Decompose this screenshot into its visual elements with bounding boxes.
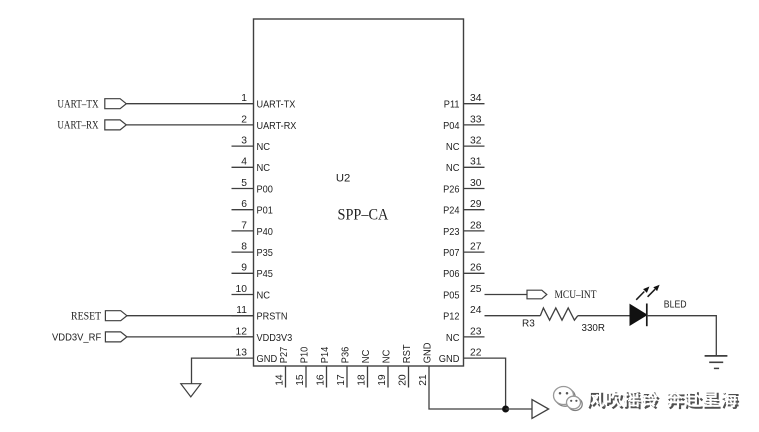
wire pin 24 P12 to R3 [485,315,541,317]
pin 24 P12 (right) [443,305,482,323]
port VDD3V_RF [52,332,127,344]
svg-text:7: 7 [241,220,247,231]
svg-text:RESET: RESET [71,310,101,322]
svg-text:12: 12 [236,326,248,337]
pin 34 P11 (right) [444,93,485,111]
svg-text:32: 32 [470,136,482,147]
svg-text:15: 15 [295,374,306,386]
svg-text:P40: P40 [257,226,274,238]
earth ground symbol (right) [705,356,728,369]
svg-text:UART–RX: UART–RX [57,120,99,132]
svg-text:3: 3 [241,136,247,147]
svg-text:P04: P04 [443,120,460,132]
svg-text:21: 21 [418,374,429,386]
svg-text:R3: R3 [522,318,535,330]
svg-text:20: 20 [398,374,409,386]
pin 9 P45 (left) [232,263,274,281]
svg-text:GND: GND [439,353,460,365]
svg-text:NC: NC [257,289,271,301]
svg-text:P12: P12 [443,311,460,323]
svg-text:U2: U2 [336,173,350,185]
svg-text:P24: P24 [443,205,460,217]
svg-text:17: 17 [336,374,347,386]
svg-text:NC: NC [446,141,460,153]
pin 5 P00 (left) [232,178,274,196]
wire VDD3V_RF to pin 12 [127,336,254,338]
svg-text:BLED: BLED [664,299,687,310]
svg-text:P26: P26 [443,183,460,195]
svg-text:14: 14 [275,374,286,386]
svg-text:4: 4 [241,157,247,168]
svg-text:26: 26 [470,263,482,274]
wire R3 to LED anode [578,315,630,317]
pin 26 P06 (right) [443,263,484,281]
svg-text:P45: P45 [257,268,274,280]
svg-text:10: 10 [236,284,248,295]
svg-text:24: 24 [470,305,482,316]
svg-text:5: 5 [241,178,247,189]
svg-text:23: 23 [470,326,482,337]
svg-text:P01: P01 [257,205,274,217]
pin 29 P24 (right) [443,199,484,217]
svg-text:VDD3V3: VDD3V3 [257,332,293,344]
svg-text:P00: P00 [257,183,274,195]
svg-text:UART-RX: UART-RX [257,120,297,132]
svg-text:31: 31 [470,157,482,168]
svg-text:2: 2 [241,114,247,125]
pin 4 NC (left) [232,157,271,175]
wire pin 21 GND to junction [429,366,506,409]
pin 12 VDD3V3 (left) [232,326,293,344]
svg-text:33: 33 [470,114,482,125]
svg-text:MCU–INT: MCU–INT [555,289,597,301]
IC U2 body [254,19,464,366]
svg-text:UART-TX: UART-TX [257,99,296,111]
svg-text:P10: P10 [298,347,310,364]
svg-text:VDD3V_RF: VDD3V_RF [52,332,101,344]
pin 15 P10 (bottom) [295,347,310,388]
svg-text:NC: NC [257,141,271,153]
pin 23 NC (right) [446,326,485,344]
svg-text:RST: RST [401,344,413,363]
svg-text:NC: NC [446,162,460,174]
pin 22 GND (right) [439,348,482,366]
svg-text:P05: P05 [443,289,460,301]
pin 19 NC (bottom) [377,349,392,387]
ground symbol (left, open triangle) [181,384,201,397]
svg-text:PRSTN: PRSTN [257,311,288,323]
pin 32 NC (right) [446,136,485,154]
svg-text:25: 25 [470,284,482,295]
svg-text:NC: NC [257,162,271,174]
pin 16 P14 (bottom) [316,347,331,388]
pin 27 P07 (right) [443,242,484,260]
pin 10 NC (left) [232,284,271,302]
svg-text:19: 19 [377,374,388,386]
svg-text:28: 28 [470,220,482,231]
svg-text:P23: P23 [443,226,460,238]
port MCU-INT [527,289,597,301]
pin 6 P01 (left) [232,199,274,217]
svg-text:13: 13 [236,348,248,359]
svg-text:P11: P11 [444,99,460,111]
svg-text:P35: P35 [257,247,274,259]
pin 11 PRSTN (left) [232,305,288,323]
svg-text:NC: NC [360,349,372,363]
LED BLED (diode with light arrows) [630,285,660,327]
svg-text:29: 29 [470,199,482,210]
wire junction to off-page connector [506,408,532,410]
pin 17 P36 (bottom) [336,347,351,388]
resistor R3 330R [540,308,578,320]
wire RESET to pin 11 [127,315,254,317]
svg-text:GND: GND [257,353,278,365]
svg-text:22: 22 [470,348,482,359]
svg-text:UART–TX: UART–TX [57,99,99,111]
svg-text:11: 11 [236,305,247,316]
svg-text:SPP–CA: SPP–CA [338,207,390,224]
wire pin 25 P05 to MCU-INT [485,294,528,296]
svg-text:30: 30 [470,178,482,189]
svg-text:P06: P06 [443,268,460,280]
svg-text:16: 16 [316,374,327,386]
port UART-RX [57,120,126,132]
svg-text:330R: 330R [582,322,606,334]
pin 30 P26 (right) [443,178,484,196]
pin 13 GND (left) [236,348,278,366]
pin 7 P40 (left) [232,220,274,238]
pin 18 NC (bottom) [357,349,372,387]
port UART-TX [57,99,126,111]
svg-text:6: 6 [241,199,247,210]
pin 8 P35 (left) [232,242,274,260]
pin 28 P23 (right) [443,220,484,238]
svg-text:9: 9 [241,263,247,274]
pin 14 P27 (bottom) [275,347,290,388]
svg-text:P36: P36 [339,347,351,364]
junction dot [502,406,509,413]
pin 1 UART-TX (left) [241,93,295,111]
pin 20 RST (bottom) [398,344,413,388]
svg-text:34: 34 [470,93,482,104]
svg-text:27: 27 [470,242,482,253]
svg-text:P14: P14 [319,347,331,364]
off-page connector (open triangle) [532,400,549,419]
pin 2 UART-RX (left) [241,114,296,132]
pin 31 NC (right) [446,157,485,175]
svg-text:NC: NC [380,349,392,363]
wire UART-RX to pin 2 [126,124,253,126]
svg-text:18: 18 [357,374,368,386]
wire pin 22 GND down [464,358,506,409]
svg-text:NC: NC [446,332,460,344]
svg-text:P27: P27 [278,347,290,364]
wire UART-TX to pin 1 [126,103,253,105]
pin 21 GND (bottom) [418,342,433,386]
wire pin 13 GND to ground [192,358,254,384]
pin 3 NC (left) [232,136,271,154]
port RESET [71,310,127,322]
svg-text:GND: GND [421,342,433,363]
svg-text:P07: P07 [443,247,460,259]
pin 25 P05 (right) [443,284,482,302]
svg-text:1: 1 [241,93,247,104]
pin 33 P04 (right) [443,114,484,132]
wire LED cathode to earth ground [647,316,717,356]
svg-text:8: 8 [241,242,247,253]
